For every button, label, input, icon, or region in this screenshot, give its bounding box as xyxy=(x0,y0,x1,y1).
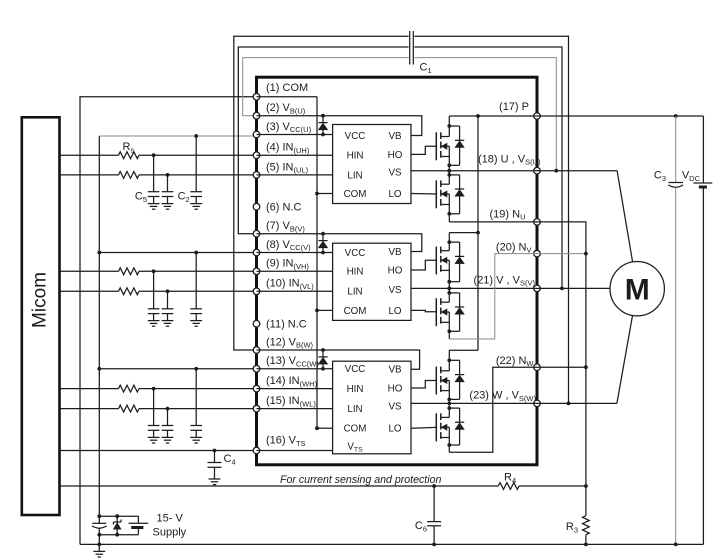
wire: bootstrap loop W (pin12 to pin23 node) xyxy=(234,36,571,405)
pin (13) terminal and label xyxy=(253,355,319,372)
svg-text:COM: COM xyxy=(344,189,367,200)
svg-text:VB: VB xyxy=(388,131,402,142)
transistor Q3 (V high-side) with body diode xyxy=(411,233,464,289)
svg-text:(9) IN(VH): (9) IN(VH) xyxy=(266,258,309,271)
label: for current sensing and protection xyxy=(280,474,441,486)
transistor Q4 (V low-side) with body diode xyxy=(411,288,464,339)
capacitor C5 (V low input filter) xyxy=(162,291,174,326)
op-amp U2: gate driver 2 (phase V) xyxy=(333,243,411,320)
svg-text:LO: LO xyxy=(388,189,401,200)
label C4 xyxy=(224,453,236,466)
svg-text:15- V: 15- V xyxy=(157,513,184,525)
svg-text:LO: LO xyxy=(388,306,401,317)
svg-text:(10) IN(VL): (10) IN(VL) xyxy=(266,278,314,291)
svg-text:(20) NV: (20) NV xyxy=(496,241,532,254)
transistor Q2 (U low-side) with body diode xyxy=(411,171,464,222)
svg-text:VCC: VCC xyxy=(345,364,366,375)
wire: VS(W) output line to pin 23 xyxy=(411,402,537,406)
svg-text:(15) IN(WL): (15) IN(WL) xyxy=(266,395,316,408)
svg-text:(2) VB(U): (2) VB(U) xyxy=(266,102,306,115)
capacitor C5 (W high input filter) xyxy=(148,389,160,443)
svg-text:(6) N.C: (6) N.C xyxy=(266,201,302,213)
pin (2) terminal and label xyxy=(253,102,306,119)
capacitor C5 (W low input filter) xyxy=(162,409,174,443)
label C6 xyxy=(415,520,427,533)
battery VDC (DC supply) xyxy=(694,116,713,544)
svg-text:(11) N.C: (11) N.C xyxy=(266,318,307,330)
svg-text:VS: VS xyxy=(388,167,402,178)
wire: NW stub pin22 to N bus xyxy=(537,365,588,369)
pin (17) terminal and label xyxy=(499,101,540,119)
wire: N sense bus (pins 19/20/22 to R3) xyxy=(537,222,586,516)
wire: VCC(V) line to pin 8 xyxy=(99,252,256,254)
svg-text:(22) NW: (22) NW xyxy=(496,355,535,368)
capacitor C1 (bootstrap) xyxy=(410,31,414,65)
label 15-V Supply xyxy=(153,513,187,539)
svg-text:C1: C1 xyxy=(420,62,432,75)
wire: NV route from Q4 source to pin 20 xyxy=(449,254,537,339)
op-amp U1: gate driver 1 (phase U) xyxy=(333,125,411,204)
transistor Q1 (U high-side) with body diode xyxy=(411,116,464,171)
resistor Rs (U low-side input) xyxy=(60,172,257,179)
wire: pin1 COM stub to internal COM bus xyxy=(257,97,319,430)
motor M xyxy=(610,262,664,316)
svg-text:(21) V , VS(V): (21) V , VS(V) xyxy=(474,274,536,287)
svg-text:(14) IN(WH): (14) IN(WH) xyxy=(266,375,318,388)
svg-text:C6: C6 xyxy=(415,520,427,533)
label R4 xyxy=(504,472,516,485)
wire: pin15 IN(WL) stub to driver3 LIN xyxy=(257,408,333,410)
svg-text:HO: HO xyxy=(388,265,403,276)
pin (9) terminal and label xyxy=(253,258,309,275)
capacitor C5 (U low input filter) xyxy=(162,175,174,209)
pin (16) terminal and label xyxy=(253,435,305,454)
svg-text:R3: R3 xyxy=(566,521,578,534)
ground (supply) xyxy=(93,544,105,557)
capacitor C2 (V VCC decoupling) xyxy=(190,251,202,327)
svg-text:VB: VB xyxy=(388,365,402,376)
capacitor C5 (V high input filter) xyxy=(148,271,160,326)
svg-text:(13) VCC(W): (13) VCC(W) xyxy=(266,355,319,368)
svg-text:Supply: Supply xyxy=(153,527,187,539)
svg-text:M: M xyxy=(625,274,650,307)
svg-text:LO: LO xyxy=(388,424,401,435)
wire: pin10 IN(VL) stub to driver2 LIN xyxy=(257,290,333,292)
svg-text:HO: HO xyxy=(388,150,403,161)
capacitor C6 (sense filter) xyxy=(427,484,441,546)
wire: NW route from Q6 source to pin 22 xyxy=(449,367,537,452)
wire: supply to ground rail xyxy=(97,535,101,547)
wire: NU line from Q2 source to pin 19 xyxy=(449,221,537,223)
zener diode (15V clamp) xyxy=(113,514,121,536)
resistor Rs (U high-side input) xyxy=(60,152,257,159)
wire: pin12 VB(W) over-route to driver3 VB xyxy=(257,348,420,369)
wire: U output to motor xyxy=(537,171,633,262)
capacitor C2 (U VCC decoupling) xyxy=(190,134,202,209)
pin (14) terminal and label xyxy=(253,375,317,392)
wire: current sense line from Micom to R4/R3 node xyxy=(60,484,588,488)
transistor Q6 (W low-side) with body diode xyxy=(411,403,464,452)
svg-text:Rs: Rs xyxy=(123,141,135,154)
pin (4) terminal and label xyxy=(253,142,310,159)
wire: NV stub pin20 to N bus xyxy=(537,252,588,256)
wire: driver1 COM connection xyxy=(317,193,333,195)
svg-text:HO: HO xyxy=(388,383,403,394)
svg-text:(4) IN(UH): (4) IN(UH) xyxy=(266,142,310,155)
diode D1 (bootstrap U, VCC to VB) xyxy=(318,116,327,135)
svg-text:VCC: VCC xyxy=(345,248,366,259)
pin (15) terminal and label xyxy=(253,395,316,412)
svg-text:(1) COM: (1) COM xyxy=(266,82,308,94)
wire: bootstrap loop V (pin7 to pin21 node) xyxy=(238,47,564,290)
wire: driver3 COM connection xyxy=(317,427,333,429)
pin (12) terminal and label xyxy=(253,336,313,353)
IC package outline xyxy=(257,77,538,465)
pin (21) terminal and label xyxy=(474,274,541,291)
diode D3 (bootstrap W, VCC to VB) xyxy=(318,350,327,369)
label R3 xyxy=(566,521,578,534)
svg-text:VCC: VCC xyxy=(345,131,366,142)
wire: VCC(W) line to pin 13 xyxy=(99,368,256,370)
svg-text:C3: C3 xyxy=(654,170,666,183)
pin (10) terminal and label xyxy=(253,278,314,295)
wire: VCC bus (15V) vertical with corner to pin 3 xyxy=(97,136,253,516)
label C3 xyxy=(654,170,666,183)
svg-text:(12) VB(W): (12) VB(W) xyxy=(266,336,314,349)
svg-text:(8) VCC(V): (8) VCC(V) xyxy=(266,239,311,252)
wire: pin16 VTS stub to driver3 xyxy=(257,450,333,452)
wire: VS(U) output line to pin 18 xyxy=(411,169,537,173)
pin (7) terminal and label xyxy=(253,220,305,237)
capacitor C5 (U high input filter) xyxy=(148,155,160,209)
pin (20) terminal and label xyxy=(496,241,540,257)
resistor Rs (V low-side input) xyxy=(60,288,257,295)
transistor Q5 (W high-side) with body diode xyxy=(411,350,464,403)
diode D2 (bootstrap V, VCC to VB) xyxy=(318,234,327,253)
svg-text:C4: C4 xyxy=(224,453,236,466)
wire: bottom ground rail xyxy=(80,543,703,545)
wire: pin8 VCC(V) stub to driver2 xyxy=(257,251,333,255)
svg-text:(3) VCC(U): (3) VCC(U) xyxy=(266,121,312,134)
label C1 xyxy=(420,62,432,75)
pin (18) terminal and label xyxy=(478,153,541,174)
wire: pin4 IN(UH) stub to driver1 HIN xyxy=(257,154,333,156)
pin (8) terminal and label xyxy=(253,239,311,256)
wire: pin3 VCC(U) stub to driver1 xyxy=(257,133,333,137)
svg-text:COM: COM xyxy=(344,424,367,435)
pin (11) terminal and label xyxy=(253,318,307,330)
wire: pin13 VCC(W) stub to driver3 xyxy=(257,367,333,371)
battery symbol (15V supply) xyxy=(129,516,149,535)
svg-text:Micom: Micom xyxy=(30,272,51,328)
pin (3) terminal and label xyxy=(253,121,311,138)
svg-text:VS: VS xyxy=(388,285,402,296)
pin (1) terminal and label xyxy=(253,82,308,100)
label Rs xyxy=(123,141,135,154)
label C5 xyxy=(135,191,147,204)
svg-text:(7) VB(V): (7) VB(V) xyxy=(266,220,305,233)
Micom block xyxy=(22,117,60,515)
op-amp U3: gate driver 3 (phase W) xyxy=(333,361,411,454)
svg-text:VS: VS xyxy=(388,401,402,412)
pin (19) terminal and label xyxy=(490,208,541,225)
svg-text:VB: VB xyxy=(388,247,402,258)
wire: pin2 VB(U) over-route to driver1 VB xyxy=(257,114,422,136)
svg-text:(19) NU: (19) NU xyxy=(490,208,526,221)
capacitor C2 (W VCC decoupling) xyxy=(190,367,202,443)
label C2 xyxy=(178,191,190,204)
svg-text:LIN: LIN xyxy=(347,404,362,415)
wire: pin14 IN(WH) stub to driver3 HIN xyxy=(257,388,333,390)
capacitor C3 (DC bus) xyxy=(668,116,683,546)
resistor Rs (W high-side input) xyxy=(60,385,257,392)
svg-text:VDC: VDC xyxy=(682,170,701,183)
wire: COM bus from pin 1 to bottom rail xyxy=(80,97,257,545)
wire: pin17 P line xyxy=(449,114,703,118)
svg-text:(17) P: (17) P xyxy=(499,101,529,113)
wire: pin5 IN(UL) stub to driver1 LIN xyxy=(257,174,333,176)
pin (23) terminal and label xyxy=(469,390,540,407)
svg-text:C5: C5 xyxy=(135,191,147,204)
svg-text:(5) IN(UL): (5) IN(UL) xyxy=(266,161,309,174)
svg-text:VTS: VTS xyxy=(347,441,363,453)
svg-text:R4: R4 xyxy=(504,472,516,485)
wire: bootstrap loop U (pin2 to pin18 node) xyxy=(243,58,558,173)
15-V supply network xyxy=(92,514,138,536)
pin (22) terminal and label xyxy=(496,355,540,371)
wire: P bus vertical to Q3/Q5 drains xyxy=(449,116,480,350)
resistor Rs (V high-side input) xyxy=(60,268,257,275)
wire: driver2 COM connection xyxy=(317,309,333,311)
wire: pin7 VB(V) over-route to driver2 VB xyxy=(257,232,422,252)
capacitor C4 (VTS filter) xyxy=(208,449,222,485)
pin (5) terminal and label xyxy=(253,161,308,178)
wire: V output to motor xyxy=(537,287,610,289)
svg-text:HIN: HIN xyxy=(347,151,364,162)
resistor R4 (sense) xyxy=(498,483,519,490)
label VDC xyxy=(682,170,701,183)
wire: pin9 IN(VH) stub to driver2 HIN xyxy=(257,270,333,272)
svg-text:LIN: LIN xyxy=(347,170,362,181)
wire: VS(V) output line to pin 21 xyxy=(411,287,537,291)
svg-text:HIN: HIN xyxy=(347,384,364,395)
wire: W output to motor xyxy=(537,316,633,404)
svg-text:HIN: HIN xyxy=(347,267,364,278)
svg-text:LIN: LIN xyxy=(347,287,362,298)
svg-text:(16) VTS: (16) VTS xyxy=(266,435,306,448)
svg-text:For current sensing and protec: For current sensing and protection xyxy=(280,474,441,486)
pin (6) terminal and label xyxy=(253,201,301,213)
resistor Rs (W low-side input) xyxy=(60,405,257,412)
svg-text:COM: COM xyxy=(344,306,367,317)
svg-text:(18) U , VS(U): (18) U , VS(U) xyxy=(478,153,541,166)
svg-text:C2: C2 xyxy=(178,191,190,204)
wire: VTS line from Micom to pin 16 xyxy=(60,450,257,452)
resistor R3 (current shunt) xyxy=(583,516,590,547)
svg-text:(23) W , VS(W): (23) W , VS(W) xyxy=(469,390,536,403)
